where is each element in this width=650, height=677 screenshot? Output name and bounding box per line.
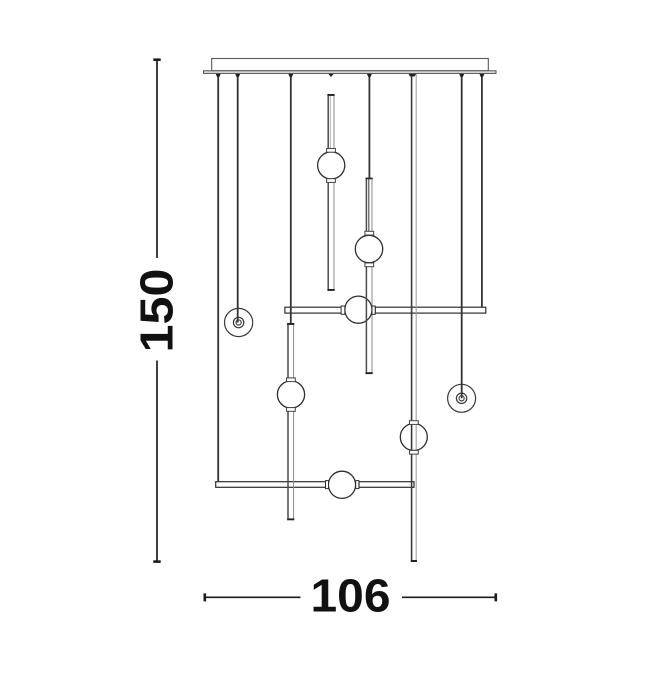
tube E lower segment xyxy=(287,411,294,520)
rod stub R7 xyxy=(479,74,484,77)
dimension 106 line right part xyxy=(402,596,496,598)
suspension rod R1 xyxy=(217,74,219,482)
svg-text:106: 106 xyxy=(311,570,391,622)
dimension 150 vertical line lower part xyxy=(156,361,158,562)
end-view sphere A inner ring xyxy=(236,320,241,325)
end-view sphere B inner ring xyxy=(459,396,464,401)
tube C collar below S1 xyxy=(327,179,336,183)
bottom bar collar right of S6 xyxy=(356,481,359,489)
rod stub R4 xyxy=(367,74,372,77)
tube D collar above S2 xyxy=(365,231,374,235)
rod stub R1 xyxy=(216,74,221,77)
sphere S2 on tube D xyxy=(355,235,382,262)
dimension 150 vertical line upper part xyxy=(156,60,158,258)
bottom horizontal bar xyxy=(216,482,414,488)
tube D collar below S2 xyxy=(365,263,374,267)
end-view sphere A outer ring xyxy=(225,308,253,336)
rod stub R3 xyxy=(288,74,293,77)
tube D lower segment xyxy=(366,267,373,374)
end-view sphere B outer ring xyxy=(448,384,476,412)
svg-text:150: 150 xyxy=(131,269,183,353)
sphere S5 on tube F xyxy=(400,424,427,451)
rod stub R2 xyxy=(235,74,240,77)
tube C collar above S1 xyxy=(327,149,336,153)
tube D upper segment xyxy=(366,178,373,232)
tube F collar below S5 xyxy=(410,450,419,454)
sphere S3 on middle bar xyxy=(345,296,372,323)
tube F collar above S5 xyxy=(410,421,419,425)
rod stub tube F xyxy=(409,74,417,77)
middle bar collar right of S3 xyxy=(372,306,375,314)
middle horizontal bar xyxy=(285,307,486,313)
sphere S6 on bottom bar xyxy=(328,471,355,498)
suspension rod R6 xyxy=(461,74,463,398)
tube E collar above S4 xyxy=(287,378,296,382)
suspension rod R3 xyxy=(290,74,292,324)
central tube C lower segment xyxy=(327,182,334,291)
dimension 106 right cap xyxy=(494,593,497,601)
dimension 150 top cap xyxy=(153,58,160,61)
dimension 150 bottom cap xyxy=(153,560,160,563)
tube F full drop xyxy=(411,74,417,562)
dimension 106 left cap xyxy=(204,593,207,601)
suspension rod R2 xyxy=(237,74,239,323)
central tube C upper segment xyxy=(327,94,334,149)
bottom bar collar left of S6 xyxy=(326,481,329,489)
tube E upper segment xyxy=(287,323,294,378)
dimension 106 line left part xyxy=(205,596,301,598)
tube E collar below S4 xyxy=(287,408,296,412)
sphere S4 on tube E xyxy=(277,381,304,408)
end-view sphere B middle ring xyxy=(456,393,466,403)
canopy centre hanger triangle xyxy=(328,74,333,77)
rod stub R6 xyxy=(459,74,464,77)
sphere S1 on central tube xyxy=(318,152,345,179)
middle bar collar left of S3 xyxy=(341,306,345,314)
suspension rod R4 xyxy=(368,74,370,179)
end-view sphere A middle ring xyxy=(233,317,243,327)
canopy box xyxy=(212,59,489,71)
canopy plate xyxy=(204,71,497,74)
suspension rod R7 xyxy=(481,74,483,307)
